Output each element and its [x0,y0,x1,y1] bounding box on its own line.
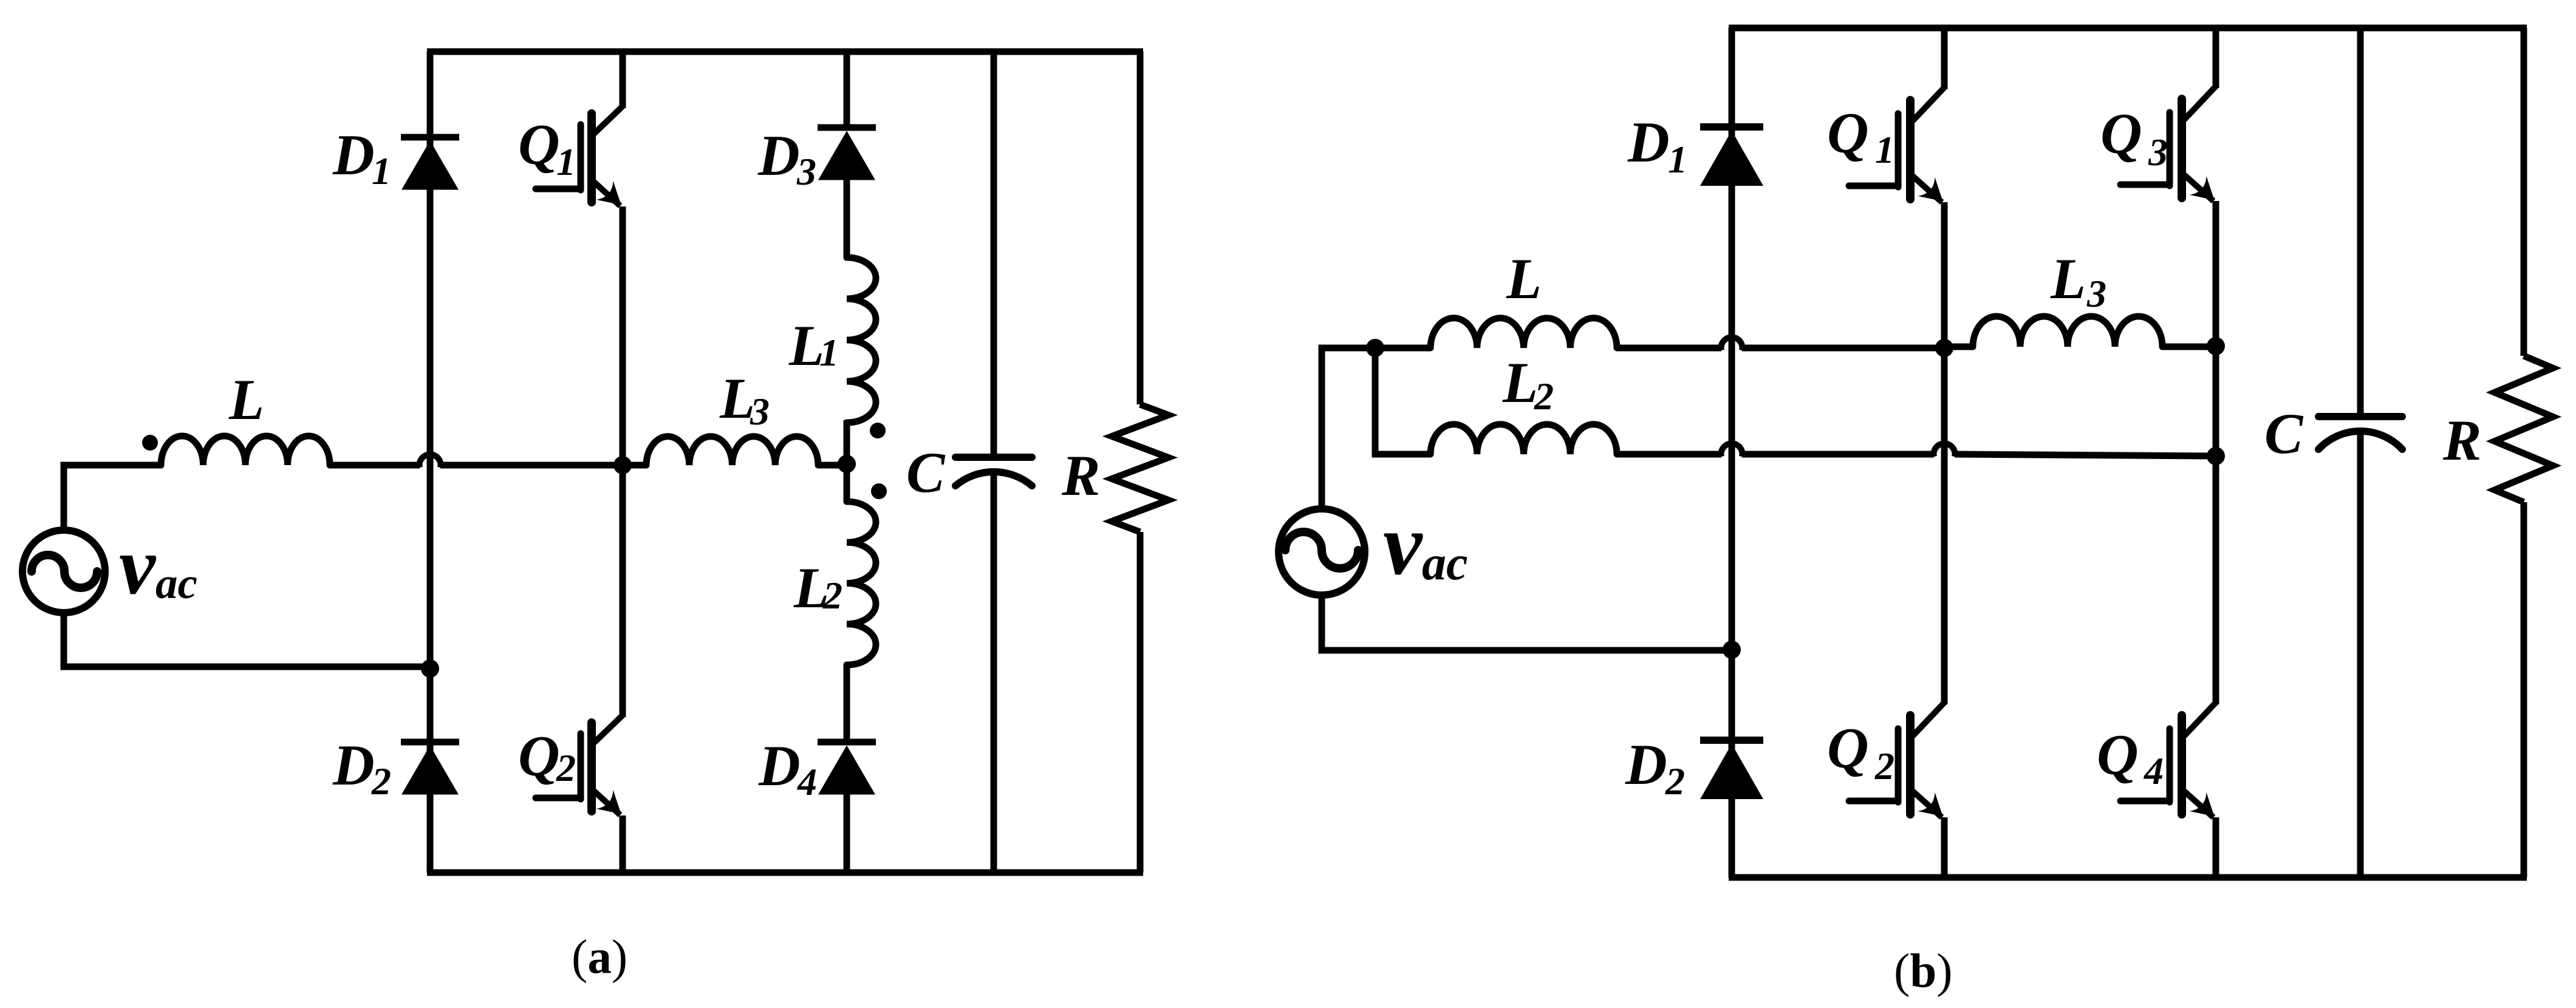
svg-text:3: 3 [2148,131,2168,174]
ac source vac (a) sine wave [32,555,97,588]
transistor Q3 emitter diagonal [2184,175,2213,201]
svg-text:2: 2 [1665,760,1685,803]
polarity dot L (a) [142,435,158,451]
transistor Q4 body bar [2178,715,2186,814]
svg-text:v: v [119,521,157,611]
transistor Q2 gate lead [536,795,581,802]
wire L2 to Q3 node (b) [1955,454,2216,456]
diode D2 (b) [1700,737,1763,744]
wire L2 to D4 (a) [844,665,850,742]
svg-text:C: C [906,440,946,505]
svg-text:D: D [332,123,375,187]
node source-return junction (a) [421,659,439,678]
label D1 (b) [1627,110,1687,181]
transistor Q2b emitter arrow [1918,792,1943,817]
wire Q3 emitter to L3 node (b) [2213,201,2219,346]
label L1 (a) [788,313,839,378]
capacitor C (a) curved bottom plate [955,472,1032,486]
capacitor C (b) curved bottom plate [2318,431,2402,449]
transistor Q2 emitter diagonal [593,790,620,815]
svg-text:4: 4 [2144,749,2164,792]
inductor L2 (a) [847,502,876,665]
node L junction at Q leg (b) [1935,339,1953,357]
diode D2 (a) [401,739,459,746]
diode D1 (a) [401,134,459,141]
wire hop over D leg (a) [419,454,440,468]
diode D4 (a) [818,739,876,746]
transistor Q3 gate lead [2120,182,2170,188]
svg-text:L: L [1502,350,1538,415]
svg-text:Q: Q [2100,101,2142,166]
svg-text:2: 2 [822,574,842,617]
capacitor C (b) top plate [2318,413,2402,420]
svg-text:L: L [2050,247,2086,311]
transistor Q2b emitter diagonal [1913,791,1942,817]
svg-text:(b): (b) [1894,945,1953,998]
label D4 (a) [758,734,817,803]
wire source top lead (a) [64,465,161,531]
wire C leg upper (b) [2357,28,2364,417]
svg-text:ac: ac [155,559,197,608]
inductor L2 (b) [1430,424,1617,454]
transistor Q4 emitter diagonal [2184,791,2213,817]
transistor Q4 gate lead [2120,798,2170,805]
transistor Q2b gate lead [1849,798,1898,805]
wire C leg upper (a) [991,52,997,457]
label Q4 (b) [2097,723,2164,792]
transistor Q4 gate bar [2167,729,2173,802]
label Q1 (b) [1827,101,1894,171]
svg-text:2: 2 [1534,375,1554,418]
label L3 (a) [719,366,770,433]
transistor Q1b gate bar [1895,114,1902,187]
resistor R (b) zigzag [2495,356,2553,502]
inductor L3 (b) [1973,316,2162,347]
wire R leg lower (a) [1137,532,1144,873]
svg-text:Q: Q [518,112,560,177]
transistor Q1 collector diagonal [593,106,623,135]
svg-text:R: R [2442,408,2481,472]
wire hop over D leg upper (b) [1721,337,1743,350]
label vac (b) [1383,496,1468,593]
wire Q leg mid (b) [1941,348,1948,704]
node L3 junction at Q3 leg (b) [2207,337,2225,355]
transistor Q2 emitter arrow [596,790,621,814]
wire R leg upper (a) [1137,52,1144,404]
svg-text:D: D [757,123,800,188]
wire mid node to L3 (a) [623,462,646,469]
svg-text:3: 3 [796,150,816,193]
label Q2 (a) [518,724,576,789]
transistor Q2b collector diagonal [1913,703,1944,736]
svg-text:Q: Q [518,724,560,788]
svg-text:1: 1 [1875,128,1894,171]
wire L1-L2 leg top (a) [844,52,850,128]
svg-text:1: 1 [372,149,391,192]
svg-text:2: 2 [371,760,391,803]
svg-text:4: 4 [797,760,817,803]
transistor Q3 collector diagonal [2184,86,2216,120]
transistor Q3 body bar [2178,99,2186,198]
svg-text:D: D [332,733,375,797]
svg-text:1: 1 [556,140,576,183]
transistor Q2b body bar [1906,715,1915,814]
label D1 (a) [332,123,391,192]
svg-text:1: 1 [1668,138,1687,181]
label D2 (b) [1625,732,1685,803]
inductor L3 (a) [646,437,818,465]
node L-L2 branch junction (b) [1366,339,1384,357]
wire Q2 emitter to bottom rail (a) [620,816,626,873]
ac source vac (a) circle [22,530,105,613]
svg-text:1: 1 [819,331,839,374]
ac source vac (b) circle [1279,509,1365,595]
node L2 junction at Q3 leg (b) [2207,447,2225,465]
transistor Q1 body bar [587,114,596,202]
transistor Q2 body bar [587,723,596,811]
wire mid node to Q2 (a) [620,465,626,717]
wire hop over Q leg (b) [1934,443,1955,457]
wire hop over D leg lower (b) [1721,443,1743,457]
transistor Q1b collector diagonal [1913,87,1944,121]
svg-text:D: D [1625,732,1667,797]
label L2 (b) [1502,350,1554,418]
inductor L (a) [161,436,330,465]
node source-return junction (b) [1723,641,1741,659]
transistor Q2 gate bar [578,734,584,799]
wire L3 to Q3 node (b) [2162,344,2216,350]
svg-text:L: L [1506,247,1542,311]
circuit (a) bottom rail wire [427,870,1143,876]
inductor L (b) [1430,318,1617,348]
transistor Q1 emitter diagonal [593,181,620,206]
polarity dot L1 (a) [870,423,886,438]
wire L to hop (a) [330,462,420,469]
label Q1 (a) [518,112,576,183]
wire D1-D2 leg (a) [427,52,434,873]
node L3 junction (a) [838,455,856,473]
svg-text:R: R [1061,443,1100,508]
transistor Q1b gate lead [1849,183,1898,189]
wire R leg lower (b) [2521,502,2527,877]
svg-text:D: D [1627,110,1670,174]
transistor Q1 emitter arrow [596,181,621,205]
transistor Q4 collector diagonal [2184,703,2216,736]
circuit (b) bottom rail wire [1729,874,2527,881]
transistor Q4 emitter arrow [2189,792,2215,817]
wire L2 between hops (b) [1742,451,1934,458]
label vac (a) [119,521,197,611]
wire source bottom lead (a) [64,610,430,667]
wire source bottom lead (b) [1322,594,1732,650]
transistor Q1b emitter diagonal [1913,176,1942,202]
wire Q1 emitter to mid node (a) [620,206,626,465]
transistor Q1 gate bar [578,124,584,190]
svg-text:Q: Q [2097,723,2139,787]
wire L1 to mid node (a) [844,420,850,463]
label D3 (a) [757,123,816,193]
wire Q4 emitter to bottom rail (b) [2213,817,2219,877]
transistor Q2 collector diagonal [593,715,623,744]
diode D3 (a) [818,124,876,131]
svg-text:2: 2 [1874,744,1894,788]
wire hop to Q node (b) [1742,345,1944,352]
wire Q1-Q2 leg upper (b) [1941,28,1948,89]
wire Q3-Q4 leg upper (b) [2213,28,2219,88]
svg-text:Q: Q [1827,101,1869,165]
wire L2 to hop at D leg (b) [1617,451,1721,458]
svg-text:Q: Q [1827,716,1869,780]
wire Q2 emitter to bottom rail (b) [1941,817,1948,877]
wire Q3 leg mid (b) [2213,346,2219,456]
label L3 (b) [2050,247,2106,315]
wire junction to L (b) [1375,345,1430,352]
svg-text:3: 3 [750,390,770,433]
inductor L1 (a) [847,257,876,423]
wire D4 to bottom rail (a) [844,791,850,873]
transistor Q1b emitter arrow [1918,177,1943,202]
wire C leg lower (b) [2357,430,2364,877]
wire L2 branch drop (b) [1375,348,1430,454]
svg-text:2: 2 [556,746,576,789]
node mid junction Q leg (a) [613,456,632,474]
diode D1 (b) [1700,123,1763,131]
wire C leg lower (a) [991,471,997,873]
svg-text:L: L [228,367,264,432]
transistor Q3 gate bar [2167,112,2173,186]
wire L3 to junction (a) [818,462,847,469]
svg-text:(a): (a) [572,931,627,984]
wire R leg upper (b) [2521,28,2527,356]
transistor Q2b gate bar [1895,729,1902,802]
wire Q3 leg lower (b) [2213,456,2219,704]
wire L to hop at D leg (b) [1617,345,1721,352]
wire Q node to L3 (b) [1944,344,1973,350]
wire mid node to L2 (a) [844,464,850,502]
ac source vac (b) sine wave [1285,532,1358,568]
polarity dot L2 (a) [871,483,887,499]
svg-text:D: D [758,734,801,798]
label Q2 (b) [1827,716,1894,788]
wire D3 to L1 (a) [844,180,850,257]
svg-text:v: v [1383,496,1423,593]
resistor R (a) zigzag [1112,404,1169,532]
wire Q1 emitter to L node (b) [1941,202,1948,348]
transistor Q1 gate lead [536,186,581,192]
wire D1-D2 leg (b) [1729,28,1735,877]
label L2 (a) [793,556,842,620]
capacitor C (a) top plate [955,454,1032,461]
circuit (b) top rail wire [1729,25,2527,32]
wire source top lead (b) [1322,348,1375,507]
label Q3 (b) [2100,101,2168,174]
svg-text:C: C [2264,401,2304,466]
wire hop to Q mid node (a) [440,462,623,469]
label D2 (a) [332,733,391,803]
transistor Q3 emitter arrow [2189,176,2215,200]
svg-text:ac: ac [1422,537,1468,590]
wire Q1-Q2 leg upper (a) [620,52,626,108]
circuit (a) top rail wire [427,49,1143,55]
transistor Q1b body bar [1906,100,1915,199]
svg-text:3: 3 [2086,272,2106,315]
